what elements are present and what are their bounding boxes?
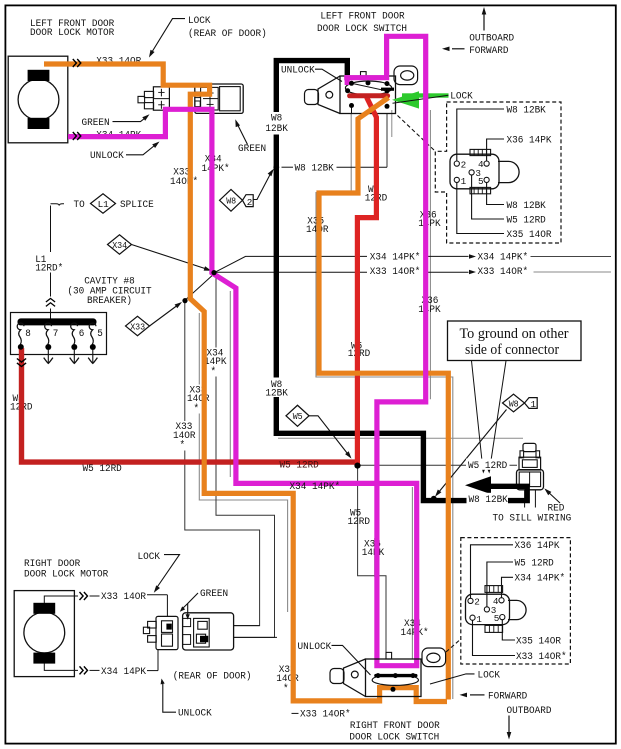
svg-text:W8 12BK: W8 12BK [295,163,335,175]
svg-text:12RD*: 12RD* [35,262,63,274]
connector chevrons on X33 orange lead [73,59,77,67]
hatch terminal block above pin 4 of C2 [485,586,503,593]
svg-text:SPLICE: SPLICE [120,199,154,211]
connector chevrons on breaker red feed [17,359,26,363]
leader pin1 C2 to label X33 14OR* [473,620,516,655]
leader pin3 C2 to label W5 12RD [487,562,513,607]
label TO L1 SPLICE with splice diamond [51,204,65,206]
switch S2 pin bar [376,674,416,677]
svg-text:14PK: 14PK [418,218,441,230]
label X34 14PK right motor [90,669,100,671]
switch S1 contact dots [349,81,354,86]
label W8 12BK white patch upper [266,112,288,135]
pin stubs under switch S1 [351,106,353,114]
pin 1 of C2 [470,615,475,620]
svg-text:LOCK: LOCK [188,15,211,27]
svg-text:14PK*: 14PK* [202,163,230,175]
wire under-trace X34 thin right leg [411,487,413,659]
svg-text:W8 12BK: W8 12BK [469,494,509,506]
direction arrow FORWARD left [452,48,465,50]
svg-text:6: 6 [79,328,85,339]
svg-text:8: 8 [25,328,31,339]
switch S1 contact oval [345,81,391,95]
svg-text:12RD: 12RD [348,516,371,528]
label W8 12BK on lower black run white patch [467,493,509,504]
leader from GREEN to connector [113,117,148,122]
svg-text:X33: X33 [130,321,145,332]
thin leader from LOCK label over green arrow [393,95,449,103]
dashed leader from switch S2 to lower detail box [446,639,461,652]
svg-text:1: 1 [461,176,467,187]
note box To ground on other side of connector [448,321,582,361]
svg-text:GREEN: GREEN [200,588,228,600]
svg-text:TO SILL WIRING: TO SILL WIRING [493,513,572,525]
junction dot black W8 lower [431,496,437,502]
connector chevrons on X34 magenta lead [73,132,77,140]
svg-text:W8 12BK: W8 12BK [507,104,547,116]
hatch terminal block below pin 5 [470,187,491,193]
svg-text:UNLOCK: UNLOCK [178,708,212,720]
wire under-trace W8 thin below black horizontal [278,437,523,439]
hatch terminal block below pin 5 of C2 [485,625,503,632]
svg-text:W8: W8 [509,398,519,409]
svg-text:FORWARD: FORWARD [488,690,527,702]
wire thin from splice line down to breaker [50,206,52,253]
svg-text:LEFT FRONT DOOR: LEFT FRONT DOOR [320,10,404,22]
leaders from note box to ground arrow [472,361,484,471]
hatch terminal block above pin 4 [470,149,491,155]
label X33 14OR* under right switch [292,712,299,714]
black ground arrowhead at end of W8 [465,476,491,494]
svg-text:X33 14OR: X33 14OR [101,591,146,603]
leader from UNLOCK to switch pin [315,69,342,81]
svg-text:7: 7 [53,328,59,339]
label W5 12RD on thin wire to sill with white patch [466,459,510,470]
svg-text:GREEN: GREEN [82,117,110,129]
svg-text:X34 14PK*: X34 14PK* [478,252,529,264]
connector chevrons on M2 leads [80,592,84,600]
svg-text:UNLOCK: UNLOCK [90,150,124,162]
svg-text:W5 12RD: W5 12RD [83,463,122,475]
svg-text:UNLOCK: UNLOCK [298,641,332,653]
switch S2 top tab [386,652,392,659]
splice symbol W8 1 with leader to black junction [503,394,525,412]
svg-text:BREAKER): BREAKER) [87,295,132,307]
svg-text:W8: W8 [226,196,236,207]
leader pin2 C2 to label X36 14PK [471,545,514,599]
svg-text:LOCK: LOCK [478,669,501,681]
connector J4 right green connector [183,613,234,650]
svg-text:X34 14PK*: X34 14PK* [515,573,566,585]
pin 1 of C1 [454,177,459,182]
svg-text:OUTBOARD: OUTBOARD [507,705,552,717]
svg-text:X33 14OR*: X33 14OR* [370,266,421,278]
pin 5 of C1 [484,177,489,182]
svg-text:W8 12BK: W8 12BK [507,200,547,212]
svg-text:2: 2 [474,597,480,608]
svg-text:X33 14OR*: X33 14OR* [516,651,567,663]
svg-text:14PK: 14PK [362,547,385,559]
leader pin5 C2 to label X35 14OR [502,620,515,640]
svg-text:*: * [283,684,289,696]
svg-text:1: 1 [531,399,537,410]
svg-text:OUTBOARD: OUTBOARD [469,33,514,45]
label X34 14PK* on rail first instance [367,250,425,261]
svg-text:X36 14PK: X36 14PK [515,540,561,552]
svg-text:14OR*: 14OR* [170,176,198,188]
svg-text:5: 5 [97,328,103,339]
switch S1 pin bar right [381,88,394,91]
svg-text:W5 12RD: W5 12RD [507,214,546,226]
svg-text:X35 14OR: X35 14OR [507,229,552,241]
label X34 14PK asterisk mid stack [203,348,228,377]
splice symbol W5 with leader to red junction [286,405,309,426]
leader from LOCK to orange wire corner [151,19,185,54]
connector face C2 in lower detail box [466,594,510,624]
wire under-trace X35 thin from left switch to right switch via right loop [316,114,453,700]
svg-text:1: 1 [476,614,482,625]
svg-text:X34 14PK: X34 14PK [101,666,147,678]
svg-text:(REAR OF DOOR): (REAR OF DOOR) [188,28,267,40]
svg-text:X33 14OR*: X33 14OR* [478,266,529,278]
label X33 14OR right motor [90,595,100,597]
svg-text:DOOR LOCK SWITCH: DOOR LOCK SWITCH [349,731,439,743]
label FORWARD top right of lower switch [470,694,485,696]
motor M2 right door lock motor [14,591,74,677]
rail wire X34 14PK* with arrow and labels [216,256,469,271]
leader pin5 to label W8 12BK lower [487,183,504,205]
wire under-trace X33 thin vertical mid going to right door connector [199,313,287,612]
connector J2 green door connector [195,84,243,113]
switch S1 lever line [352,83,388,91]
label W8 12BK white patch lower [266,378,288,398]
wire thin X36 stub segment near right switch [374,538,376,577]
switch S1 left front door lock switch body [340,76,396,114]
wire W5 12RD red from breaker pin 8 to junction [22,348,359,462]
svg-text:5: 5 [494,613,500,624]
wire thin stub from left switch pin5 down [391,110,393,137]
wire W5 thin from junction to sill connector and right switch [358,466,386,654]
sill connector legs [524,490,526,508]
svg-text:2: 2 [461,159,467,170]
svg-text:X34 14PK*: X34 14PK* [370,251,421,263]
svg-text:DOOR LOCK SWITCH: DOOR LOCK SWITCH [317,23,407,35]
red contact bar inside left switch [350,93,388,98]
svg-text:*: * [180,440,186,452]
svg-text:12BK: 12BK [265,123,288,135]
svg-text:X36 14PK: X36 14PK [507,134,553,146]
pin 4 of C1 [484,161,489,166]
svg-text:L1: L1 [98,199,110,210]
label X33 14OR asterisk mid stack [186,385,211,414]
svg-text:DOOR LOCK MOTOR: DOOR LOCK MOTOR [30,27,114,39]
svg-text:GREEN: GREEN [238,143,266,155]
inline connector chevrons on L1 wire [46,298,55,302]
wire magenta bottom bar across right switch top [374,663,419,668]
breaker pin squiggle leads, hooks, numbers and terminal dots [17,323,24,345]
svg-text:FORWARD: FORWARD [469,45,508,57]
switch S1 left mounting ear [305,90,319,105]
wire X35 14OR orange from left switch to right switch via right loop [319,98,448,700]
direction arrow down bottom right [508,716,510,735]
dashed detail box for right switch connector [461,538,571,664]
wire thin stub below left switch pin to W8 label line [386,114,388,168]
label W8 12BK beside black riser with leader lines [282,166,294,168]
wire X36 14PK magenta from left switch down to right switch [345,78,350,85]
wire X33 thin from X33 junction down to right door connector [185,301,260,626]
svg-text:To ground on other: To ground on other [460,326,569,342]
rail wire X33 14OR* with arrow and labels [185,272,469,300]
leader from GREEN to connector J2 [237,123,248,145]
svg-text:W5 12RD: W5 12RD [468,460,507,472]
breaker pin 8 terminal dot over wire [18,344,23,349]
svg-text:W5: W5 [293,411,303,422]
svg-text:side of connector: side of connector [465,342,559,358]
dashed leader from switch to detail box [398,116,436,152]
svg-text:(REAR OF DOOR): (REAR OF DOOR) [173,671,252,683]
stub wires from J4 to risers [234,625,260,627]
dashed detail box for left switch connector [435,102,561,243]
svg-text:*: * [194,403,200,415]
label X33 14OR* on rail first instance [367,264,425,275]
wire X34 thin from X34 junction down to right door connector [216,273,275,637]
switch S2 right front door lock switch body [366,659,422,697]
svg-text:LOCK: LOCK [450,91,473,103]
pin 4 of C2 [499,598,504,603]
switch S2 contact oval [372,675,418,686]
wire under-trace X36 thin below switch [429,110,431,399]
connector J1 door lock motor connector [153,87,169,110]
leader pin3 to label W5 12RD [472,175,504,219]
pin 3 of C2 [484,607,489,612]
circuit breaker CB1 block [11,313,107,355]
svg-text:5: 5 [478,176,484,187]
wire X33 14OR orange from left motor to right door [44,64,447,702]
junction dot orange X33 [182,298,187,303]
diamond X33 with leader to orange junction [126,316,150,335]
switch S1 top tab [361,72,367,76]
pin 5 of C2 [500,615,505,620]
pin 2 of C1 [454,161,459,166]
leader from UNLOCK to magenta corner [126,144,157,155]
wire under-trace X34 thin vertical mid [229,291,231,477]
svg-text:W5 12RD: W5 12RD [515,557,554,569]
svg-text:RIGHT FRONT DOOR: RIGHT FRONT DOOR [350,720,440,732]
svg-text:*: * [211,367,217,379]
motor M1 left front door lock motor [8,56,68,143]
svg-text:2: 2 [247,197,253,208]
leader pin1 to label X35 14OR [457,183,504,234]
pin 3 of C1 [469,170,474,175]
pin 2 of C2 [468,598,473,603]
leader pin4 to label X36 14PK [487,139,504,161]
svg-text:DOOR LOCK MOTOR: DOOR LOCK MOTOR [24,569,108,581]
svg-text:W5 12RD: W5 12RD [280,459,319,471]
switch S2 contact dots [376,673,381,678]
svg-text:X34: X34 [112,240,127,251]
switch S2 left mounting ear [330,669,344,684]
junction dot on black W8 at label [273,164,279,170]
wire W8 12BK black from left switch to sill connector [276,61,527,501]
svg-text:12BK: 12BK [265,388,288,400]
switch S1 right mounting ear [394,66,418,85]
diamond X34 with leader to magenta junction [108,235,132,254]
svg-text:X33 14OR*: X33 14OR* [300,708,351,720]
wire X34 14PK magenta from left motor down to right switch [68,109,417,663]
motor M2 lead lines [44,596,78,603]
svg-text:UNLOCK: UNLOCK [281,64,315,76]
switch S2 right mounting ear [422,648,446,667]
breaker output barbed arrows pins 7 6 5 [47,350,49,363]
svg-text:X34 14PK*: X34 14PK* [290,481,341,493]
svg-text:14PK: 14PK [418,304,441,316]
label X33 14OR asterisk lower stack [172,421,197,451]
svg-text:LOCK: LOCK [138,551,161,563]
wire W5 12RD red riser to left switch [357,97,376,466]
green highlight arrow LOCK [402,93,449,97]
connector sill wiring connector [523,443,536,451]
svg-text:X35 14OR: X35 14OR [516,635,561,647]
leader pin2 to label W8 12BK [457,109,504,161]
direction arrow OUTBOARD up [483,12,485,31]
connector J3 right motor connector [156,616,178,649]
connector face C1 in top detail box [450,154,499,189]
leader pin4 C2 to label X34 14PK* [502,577,514,598]
splice symbol W8 2 with leader to black wire [220,189,243,211]
svg-text:TO: TO [74,199,85,211]
junction dot magenta X34 [211,270,216,275]
junction dot red W5 [354,463,360,469]
